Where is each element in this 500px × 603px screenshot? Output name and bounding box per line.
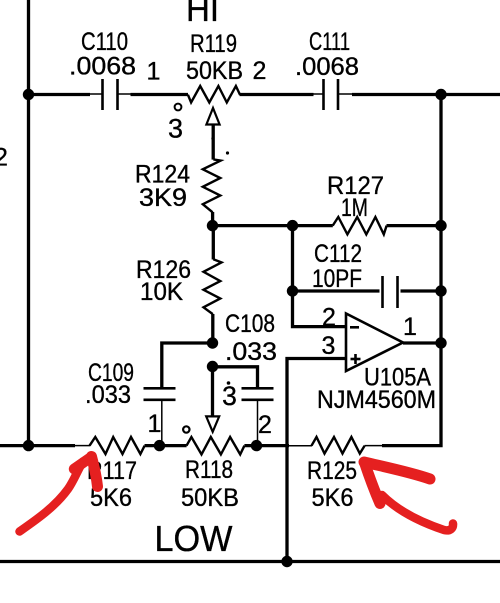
svg-text:2: 2 xyxy=(258,411,272,439)
wiper arrow of R119 xyxy=(206,108,219,125)
wire C109 bottom lead xyxy=(161,401,163,446)
svg-text:C112: C112 xyxy=(314,240,362,268)
svg-text:1: 1 xyxy=(148,410,162,438)
wire C111 left lead xyxy=(313,93,323,95)
svg-text:R118: R118 xyxy=(185,456,233,484)
wire top rail left segment xyxy=(29,93,91,96)
svg-text:2: 2 xyxy=(0,144,8,172)
svg-text:R119: R119 xyxy=(190,30,237,58)
wiper arrow of R118 xyxy=(206,416,219,431)
node top rail / right bus junction xyxy=(435,89,446,100)
resistor R125 xyxy=(312,437,365,454)
wire bottom rail left segment xyxy=(0,444,75,447)
svg-text:2: 2 xyxy=(322,304,336,332)
svg-text:1M: 1M xyxy=(341,194,368,222)
wire mid rail xyxy=(213,224,333,227)
svg-text:2: 2 xyxy=(253,57,267,85)
wire bottom rail segment R118 to R125 xyxy=(244,444,289,447)
wire C108 bottom lead xyxy=(257,401,259,446)
svg-text:3: 3 xyxy=(322,332,336,360)
svg-text:10PF: 10PF xyxy=(312,265,362,293)
wire bottom rail segment R117 to R118 xyxy=(145,444,187,447)
node mid rail / inverting branch xyxy=(287,220,298,231)
wire R127 right lead xyxy=(387,224,442,227)
wire left vertical bus xyxy=(27,0,30,446)
wire non-inverting input branch xyxy=(287,359,346,562)
resistor R126 xyxy=(204,259,222,314)
svg-text:50KB: 50KB xyxy=(186,57,243,85)
op-amp plus sign xyxy=(351,354,361,364)
wire C108 branch horizontal xyxy=(213,367,258,387)
svg-text:50KB: 50KB xyxy=(181,484,239,512)
node left bus / bottom rail xyxy=(23,440,34,451)
svg-text:1: 1 xyxy=(403,313,417,341)
wire R126 top lead xyxy=(212,226,215,260)
stray dot near R124 xyxy=(226,151,229,154)
degree mark near pin 3 xyxy=(175,104,182,111)
capacitor C111 xyxy=(324,79,339,110)
svg-text:C108: C108 xyxy=(225,310,275,338)
op-amp U105A triangle xyxy=(346,314,403,372)
svg-text:5K6: 5K6 xyxy=(312,484,354,512)
op-amp minus sign xyxy=(350,326,359,329)
wire wiper stem to R124 xyxy=(212,125,215,160)
svg-text:10K: 10K xyxy=(140,278,183,306)
svg-text:.033: .033 xyxy=(85,381,131,409)
svg-text:3: 3 xyxy=(168,114,183,144)
dot above pin 3 label xyxy=(227,381,231,385)
svg-text:LOW: LOW xyxy=(155,518,233,559)
node R118 pin1 junction xyxy=(154,440,165,451)
svg-text:3K9: 3K9 xyxy=(139,184,187,212)
svg-text:3: 3 xyxy=(222,381,237,411)
svg-text:.0068: .0068 xyxy=(69,53,136,81)
svg-text:1: 1 xyxy=(147,58,161,86)
resistor R119 (pot body) xyxy=(188,86,240,103)
wire C109 branch horizontal xyxy=(162,343,213,387)
red arrow annotation pointing at R125 xyxy=(364,462,453,530)
wire R124 bottom lead xyxy=(211,212,214,226)
speck on wiper stem xyxy=(211,137,214,140)
wire C111 right lead xyxy=(339,93,353,95)
wire inverting input branch xyxy=(293,226,347,327)
wire C110 left lead xyxy=(89,93,102,95)
wire C112 left segment xyxy=(293,289,380,292)
node C112 left junction xyxy=(287,285,298,296)
node left bus / top rail junction xyxy=(23,89,34,100)
svg-text:R125: R125 xyxy=(307,457,357,485)
wire R118 wiper stem xyxy=(211,367,214,417)
wire top rail segment to R119 xyxy=(131,93,189,96)
wire R125 right lead xyxy=(365,445,384,447)
capacitor C108 xyxy=(242,388,274,400)
node R118 pin2 junction xyxy=(251,440,262,451)
red arrow annotation pointing at R117 xyxy=(20,457,98,532)
svg-text:HI: HI xyxy=(186,0,219,29)
capacitor C110 xyxy=(103,79,118,110)
svg-text:.0068: .0068 xyxy=(295,53,359,81)
resistor R124 xyxy=(203,159,221,212)
node C109 branch on wiper column xyxy=(207,337,218,348)
wire right feedback bus xyxy=(382,95,441,446)
resistor R127 xyxy=(333,217,387,234)
node output / right bus xyxy=(435,337,446,348)
wire lowest rail xyxy=(0,560,500,563)
wire R126 bottom lead xyxy=(211,314,214,343)
svg-text:C111: C111 xyxy=(309,28,350,56)
wire op-amp output xyxy=(403,341,441,344)
svg-text:NJM4560M: NJM4560M xyxy=(317,386,436,414)
svg-text:.033: .033 xyxy=(225,338,277,366)
resistor R117 xyxy=(90,437,145,454)
node R127 / right bus xyxy=(435,220,446,231)
wire C112 right segment xyxy=(401,289,442,292)
wire C110 right lead xyxy=(119,93,132,95)
node R124 / mid rail xyxy=(207,220,218,231)
node C112 right / right bus xyxy=(435,285,446,296)
resistor R118 (pot body) xyxy=(187,437,245,454)
capacitor C112 xyxy=(383,276,398,308)
node non-inverting branch / lowest rail xyxy=(281,556,292,567)
wire top rail segment to C111 xyxy=(240,93,314,96)
capacitor C109 xyxy=(144,388,176,400)
node C108 branch on wiper column xyxy=(207,361,218,372)
wire top rail right segment xyxy=(352,93,500,96)
degree mark near R118 wiper xyxy=(183,426,189,432)
